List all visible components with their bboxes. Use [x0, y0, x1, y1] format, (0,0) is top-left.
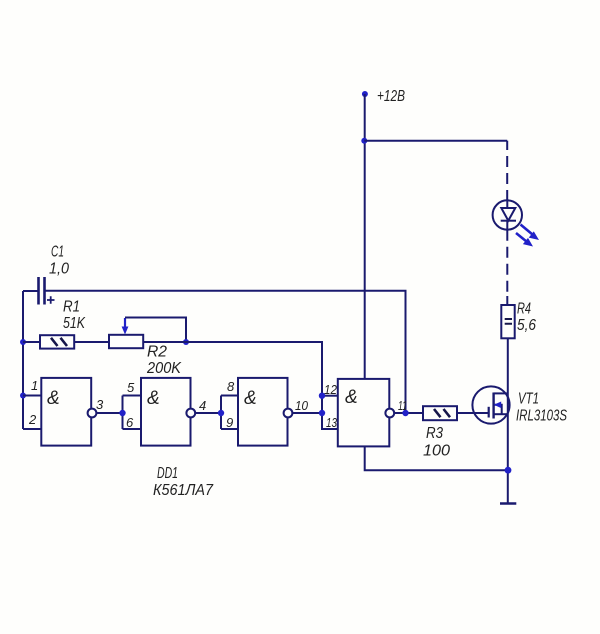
- wire: dashed link LED to R4: [506, 230, 508, 296]
- svg-text:+12В: +12В: [377, 88, 405, 105]
- R3 power marks: [434, 409, 450, 417]
- svg-text:13: 13: [326, 415, 338, 430]
- svg-text:R3: R3: [426, 425, 443, 442]
- junction dot R2 wiper / row: [183, 339, 189, 345]
- wire: +12V rail vertical down to gate DD1.4 top: [364, 94, 366, 379]
- LED HL1 circle: [493, 200, 522, 229]
- junction dot node 4: [218, 410, 224, 416]
- wire: node 11 to R3: [394, 412, 423, 414]
- svg-text:1: 1: [31, 378, 38, 393]
- wire: R2 row to gate DD1.4 input bar: [143, 342, 338, 429]
- VT1 drain stub: [494, 392, 508, 394]
- junction dot node 11: [402, 410, 408, 416]
- LED cathode bar: [501, 220, 516, 222]
- svg-text:К561ЛА7: К561ЛА7: [153, 482, 214, 499]
- ground symbol: [500, 502, 516, 505]
- svg-text:R1: R1: [63, 299, 80, 316]
- transistor VT1 circle: [472, 386, 509, 423]
- wire: node 10 to DD1.4 input bar: [292, 412, 322, 414]
- VT1 channel bar: [492, 393, 494, 419]
- gate DD1.4 box: [338, 379, 390, 447]
- VT1 substrate stub with arrow: [494, 405, 502, 414]
- svg-text:IRL3103S: IRL3103S: [516, 408, 567, 425]
- svg-text:8: 8: [227, 379, 235, 394]
- resistor R4 body: [501, 305, 514, 338]
- gate DD1.4 output bubble: [385, 409, 394, 418]
- wire: DD1.4 pin 12 stub: [322, 395, 338, 397]
- node +12V terminal dot: [362, 91, 368, 97]
- VT1 gate electrode bar: [488, 407, 490, 418]
- svg-text:&: &: [244, 388, 257, 409]
- wire: left rail down to gate inputs: [22, 291, 24, 429]
- junction dot left rail / pin1: [20, 393, 26, 399]
- potentiometer R2 body: [109, 335, 143, 348]
- svg-text:R2: R2: [147, 344, 167, 361]
- wire: DD1.3 input tie bar: [221, 396, 238, 430]
- svg-text:C1: C1: [51, 244, 64, 261]
- svg-text:4: 4: [199, 398, 206, 413]
- svg-text:VT1: VT1: [518, 391, 539, 408]
- wire: C1 right plate top feedback line to node 11: [45, 291, 406, 413]
- wire: top branch to LED column: [364, 140, 507, 142]
- svg-text:3: 3: [96, 397, 104, 412]
- svg-text:10: 10: [295, 398, 309, 413]
- R2 wiper arrow: [124, 318, 126, 328]
- LED diode triangle: [501, 201, 515, 230]
- svg-text:&: &: [47, 388, 60, 409]
- svg-text:DD1: DD1: [157, 465, 178, 482]
- gate DD1.3 box: [238, 378, 288, 446]
- wire: pin 2 stub: [23, 428, 41, 430]
- svg-text:6: 6: [126, 415, 134, 430]
- junction dot node 10: [319, 410, 325, 416]
- wire: R3 to MOSFET gate: [457, 412, 489, 414]
- svg-text:2: 2: [28, 412, 37, 427]
- svg-text:&: &: [147, 388, 160, 409]
- wire: C1 left plate to left rail: [23, 290, 39, 292]
- junction dot node 3: [119, 410, 125, 416]
- svg-text:100: 100: [423, 443, 450, 460]
- R1 power marks: [51, 338, 67, 346]
- capacitor C1 right plate: [43, 277, 46, 305]
- wire: R1 to R2: [74, 341, 109, 343]
- gate DD1.2 box: [141, 378, 191, 446]
- gate DD1.1 box: [41, 378, 91, 446]
- R2 wiper link: [125, 318, 186, 343]
- svg-text:200K: 200K: [146, 360, 182, 377]
- svg-text:&: &: [345, 387, 358, 408]
- svg-text:5,6: 5,6: [517, 317, 536, 334]
- wire: +12V rail below gate DD1.4 to bottom row: [365, 446, 508, 470]
- svg-text:1,0: 1,0: [49, 261, 69, 278]
- gate DD1.2 output bubble: [186, 409, 195, 418]
- VT1 source stub: [494, 413, 508, 415]
- wire: DD1.2 input tie bar: [123, 396, 142, 430]
- wire: left rail to R1: [23, 341, 40, 343]
- svg-text:12: 12: [324, 382, 338, 397]
- resistor R3 body: [423, 406, 457, 420]
- LED emission arrow 2: [516, 233, 533, 247]
- junction dot bottom node: [505, 467, 512, 474]
- LED emission arrow 1: [521, 225, 540, 241]
- C1 polarity plus: [47, 296, 55, 304]
- svg-text:51K: 51K: [63, 315, 86, 332]
- svg-text:9: 9: [226, 415, 233, 430]
- resistor R1 body: [40, 335, 74, 348]
- R4 power marks: [505, 319, 512, 324]
- gate DD1.3 output bubble: [284, 409, 293, 418]
- svg-text:5: 5: [127, 380, 135, 395]
- junction dot left rail / R1 row: [20, 339, 26, 345]
- svg-text:R4: R4: [517, 301, 531, 318]
- wire: pin 1 stub: [23, 395, 41, 397]
- wire: R4 to MOSFET drain column: [507, 338, 509, 503]
- wire: node 3 to DD1.2 input bar: [96, 412, 122, 414]
- gate DD1.1 output bubble: [88, 409, 97, 418]
- wire: node 4 to DD1.3 input bar: [195, 412, 221, 414]
- wire: dashed link down to LED: [506, 141, 508, 150]
- junction dot pin 12: [319, 393, 325, 399]
- capacitor C1 left plate: [37, 277, 40, 305]
- junction dot at +12V rail / top-right branch: [361, 138, 367, 144]
